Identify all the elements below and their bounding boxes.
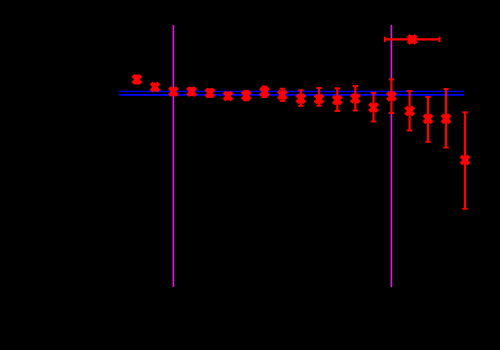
data point 1 error bar [134,76,139,84]
blue reference line upper [119,90,464,92]
data point 19 error bar [462,112,467,209]
data point 1 marker [133,75,141,83]
data point 7 error bar [244,91,249,101]
data point 7 marker [242,92,250,100]
data point 16 error bar [407,91,412,131]
data point 6 error bar [225,93,230,100]
data point 15 error bar [389,79,394,113]
data point 3 error bar [171,88,176,95]
data point 4 error bar [189,88,194,95]
data point 11 error bar [316,88,321,106]
data point 18 error bar [443,89,448,148]
average point marker [408,35,416,43]
data point 16 marker [406,107,414,115]
data point 15 marker [387,92,395,100]
data point 2 marker [151,83,159,91]
blue reference line lower [119,94,464,96]
data point 2 error bar [152,84,157,91]
data point 10 error bar [298,90,303,106]
data point 14 marker [370,104,378,112]
data point 17 error bar [425,97,430,142]
data point 13 error bar [353,86,358,110]
data point 13 marker [351,95,359,103]
data point 9 error bar [280,89,285,101]
data point 6 marker [224,92,232,100]
magenta fit-range line left [172,25,174,287]
data point 8 error bar [262,87,267,98]
data point 12 error bar [335,88,340,111]
data point 8 marker [261,88,269,96]
data point 5 error bar [207,89,212,97]
data point 4 marker [188,88,196,96]
data point 12 marker [333,96,341,104]
data point 17 marker [424,115,432,123]
data point 5 marker [206,89,214,97]
data point 11 marker [315,95,323,103]
data point 9 marker [278,91,286,99]
data point 18 marker [442,115,450,123]
data point 14 error bar [371,93,376,122]
magenta fit-range line right [390,25,392,287]
average point horizontal error bar [385,37,440,42]
data point 3 marker [169,88,177,96]
data point 10 marker [297,95,305,103]
average point vertical error bar [410,36,415,43]
data point 19 marker [461,156,469,164]
